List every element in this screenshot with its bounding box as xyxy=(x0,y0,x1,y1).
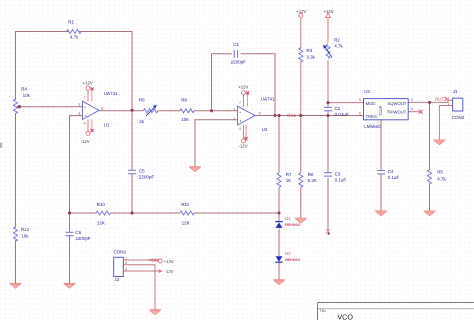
svg-text:8.2K: 8.2K xyxy=(308,178,317,183)
svg-text:+: + xyxy=(239,119,242,124)
svg-text:1: 1 xyxy=(448,97,450,101)
svg-text:3: 3 xyxy=(411,98,413,102)
svg-text:7: 7 xyxy=(239,101,241,105)
svg-text:C6: C6 xyxy=(75,230,81,235)
svg-text:R2: R2 xyxy=(334,38,340,43)
svg-text:4: 4 xyxy=(84,122,86,126)
svg-text:4.7k: 4.7k xyxy=(334,44,343,49)
svg-text:R6: R6 xyxy=(139,98,145,103)
svg-text:R7: R7 xyxy=(286,172,292,177)
svg-text:6: 6 xyxy=(101,107,103,111)
svg-text:0.1uF: 0.1uF xyxy=(335,178,347,183)
svg-text:12K: 12K xyxy=(182,221,190,226)
svg-text:CON3: CON3 xyxy=(114,250,127,255)
svg-text:R1: R1 xyxy=(68,19,74,24)
svg-text:TRIWOUT: TRIWOUT xyxy=(387,109,407,114)
svg-text:7: 7 xyxy=(84,96,86,100)
svg-text:4.7k: 4.7k xyxy=(70,35,79,40)
svg-text:10k: 10k xyxy=(23,93,31,98)
svg-text:+12V: +12V xyxy=(324,9,334,14)
svg-text:UA741: UA741 xyxy=(261,97,275,102)
svg-text:4: 4 xyxy=(411,107,413,111)
svg-text:CON2: CON2 xyxy=(452,115,465,120)
svg-text:C1: C1 xyxy=(233,42,239,47)
svg-text:-12V: -12V xyxy=(165,269,174,274)
svg-text:C3: C3 xyxy=(335,172,341,177)
svg-text:4.7k: 4.7k xyxy=(437,177,446,182)
svg-text:U2: U2 xyxy=(364,89,370,94)
svg-text:7: 7 xyxy=(377,121,379,125)
svg-text:6: 6 xyxy=(259,111,261,115)
svg-text:2: 2 xyxy=(78,103,80,107)
svg-text:2200pF: 2200pF xyxy=(231,59,247,64)
svg-text:10k: 10k xyxy=(21,234,29,239)
svg-text:R10: R10 xyxy=(97,202,106,207)
svg-text:12K: 12K xyxy=(97,221,105,226)
svg-text:3: 3 xyxy=(78,112,80,116)
svg-text:2200pF: 2200pF xyxy=(139,174,155,179)
svg-text:R5: R5 xyxy=(437,169,443,174)
svg-text:R11: R11 xyxy=(181,202,189,207)
svg-text:4: 4 xyxy=(239,127,241,131)
svg-text:2k: 2k xyxy=(139,119,145,124)
svg-text:J2: J2 xyxy=(114,277,119,282)
svg-text:D1: D1 xyxy=(285,216,291,221)
svg-text:Title: Title xyxy=(320,309,326,313)
svg-text:R9: R9 xyxy=(181,98,187,103)
svg-text:D2: D2 xyxy=(285,251,291,256)
svg-text:2200pF: 2200pF xyxy=(75,236,91,241)
svg-text:TRES: TRES xyxy=(366,114,377,119)
svg-text:10K: 10K xyxy=(181,117,189,122)
svg-text:MOD: MOD xyxy=(366,101,376,106)
svg-text:5: 5 xyxy=(359,98,361,102)
svg-text:R8: R8 xyxy=(308,172,314,177)
svg-text:C4: C4 xyxy=(388,169,394,174)
svg-text:J1: J1 xyxy=(453,89,458,94)
svg-text:OUT: OUT xyxy=(435,97,445,102)
svg-text:U3: U3 xyxy=(262,127,268,132)
svg-text:+12V: +12V xyxy=(83,80,93,85)
svg-text:2: 2 xyxy=(448,102,450,106)
svg-text:LM566C: LM566C xyxy=(364,124,382,129)
svg-text:6: 6 xyxy=(359,111,361,115)
svg-text:C5: C5 xyxy=(139,169,145,174)
svg-text:VCO: VCO xyxy=(337,312,353,320)
svg-text:2: 2 xyxy=(233,108,235,112)
svg-text:3: 3 xyxy=(125,267,127,271)
svg-text:SQWOUT: SQWOUT xyxy=(387,101,406,106)
svg-text:1: 1 xyxy=(125,256,127,260)
svg-text:0.1uF: 0.1uF xyxy=(388,175,400,180)
svg-text:OA1: OA1 xyxy=(287,113,297,118)
svg-text:+12V: +12V xyxy=(238,85,248,90)
svg-text:-12V: -12V xyxy=(81,139,90,144)
svg-text:R3: R3 xyxy=(306,48,312,53)
svg-text:TCAP: TCAP xyxy=(379,105,383,116)
svg-text:+12V: +12V xyxy=(164,259,174,264)
svg-text:-12V: -12V xyxy=(239,143,248,148)
svg-text:2: 2 xyxy=(125,261,127,265)
svg-text:U1: U1 xyxy=(104,123,110,128)
svg-text:R12: R12 xyxy=(21,227,30,232)
svg-text:3.3k: 3.3k xyxy=(306,54,315,59)
svg-text:3: 3 xyxy=(233,117,235,121)
svg-text:+: + xyxy=(84,114,87,119)
svg-text:1K: 1K xyxy=(286,178,292,183)
svg-text:C2: C2 xyxy=(335,106,341,111)
svg-text:+12V: +12V xyxy=(296,9,306,14)
svg-text:0.01uF: 0.01uF xyxy=(335,112,349,117)
svg-text:R4: R4 xyxy=(21,86,27,91)
svg-text:UA741: UA741 xyxy=(104,91,118,96)
